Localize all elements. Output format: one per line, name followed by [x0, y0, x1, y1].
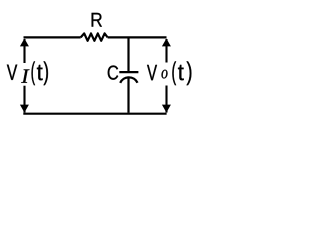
glyph subscript o of Vo(t) — [162, 70, 168, 79]
glyph t of Vo(t) — [178, 65, 184, 80]
wire: top-right segment from resistor through node A to output node — [108, 36, 167, 38]
wire: capacitor bottom lead down to bottom wire junction — [127, 78, 129, 113]
output arrow lower head — [162, 105, 171, 113]
glyph ) of VI(t) — [43, 61, 47, 85]
capacitor C curved bottom plate — [120, 77, 137, 83]
output voltage Vo(t) double-headed arrow shaft — [165, 39, 167, 113]
input arrow upper head — [20, 39, 29, 47]
white mask behind right label — [145, 63, 194, 86]
glyph t of VI(t) — [37, 65, 43, 80]
wire: capacitor top lead from node A on top wire — [127, 38, 129, 71]
glyph subscript I of VI(t) — [21, 69, 29, 82]
glyph V of VI(t) — [7, 65, 17, 80]
input voltage VI(t) double-headed arrow shaft — [23, 39, 25, 113]
glyph ( of VI(t) — [32, 61, 36, 85]
glyph ( of Vo(t) — [172, 61, 176, 85]
resistor R (zigzag body) — [81, 33, 108, 40]
wire: bottom return segment — [23, 113, 166, 115]
wire: top-left segment from input node to resistor — [24, 36, 81, 38]
label C — [108, 65, 118, 79]
glyph V of Vo(t) — [147, 65, 157, 80]
label R — [92, 13, 102, 27]
glyph ) of Vo(t) — [187, 61, 192, 85]
input arrow lower head — [20, 105, 29, 113]
output arrow upper head — [162, 39, 171, 47]
white mask behind left label — [4, 63, 50, 86]
capacitor C flat top plate — [119, 71, 138, 73]
